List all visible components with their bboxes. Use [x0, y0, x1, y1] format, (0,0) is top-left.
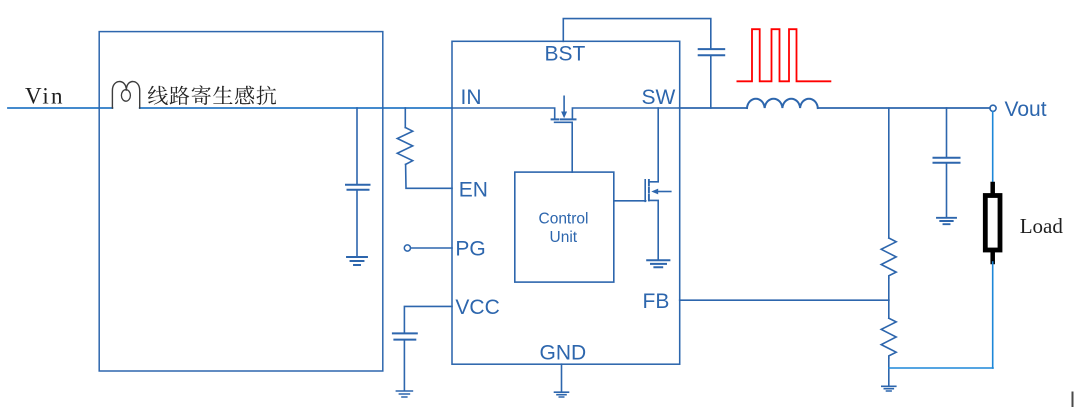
svg-text:PG: PG — [455, 238, 485, 261]
wire Vout to load (bright blue) — [992, 112, 994, 186]
transistor Q1 gate plate — [555, 121, 573, 123]
wire output cap lead — [946, 108, 948, 157]
scrollbar artifact bottom-right — [1072, 393, 1074, 407]
wire GND pin stub — [561, 364, 563, 391]
capacitor C1 input cap lead — [356, 108, 358, 184]
ground G3 under IC — [555, 392, 569, 397]
transistor Q1 channel contacts — [552, 118, 576, 120]
svg-text:SW: SW — [642, 86, 676, 109]
wire VCC pin to cap — [404, 306, 452, 332]
wire output rail — [818, 107, 990, 109]
resistor R_EN zigzag — [397, 128, 412, 165]
寄 — [192, 85, 211, 105]
arrow Q2 body (points left) — [657, 191, 671, 193]
wire Q2 source to ground — [649, 200, 658, 259]
wire C1 to ground — [356, 190, 358, 257]
capacitor C2 VCC bypass plates — [393, 333, 417, 339]
wire R1 to FB node — [888, 278, 890, 300]
wire R2 bottom to load bottom (bright blue) — [889, 367, 993, 369]
wire Vin input rail — [8, 107, 112, 109]
wire SW node to inductor — [680, 107, 747, 109]
capacitor C1 plates — [346, 185, 370, 190]
transistor Q2 channel contacts — [648, 180, 650, 200]
arrow Q1 body (points down) — [563, 96, 565, 112]
resistor R1 (upper divider) — [881, 238, 896, 278]
svg-text:Vin: Vin — [25, 84, 65, 109]
svg-text:FB: FB — [643, 290, 670, 313]
ground G1 — [347, 257, 367, 265]
IC regulator box U1 — [452, 41, 680, 364]
load resistor rectangle — [985, 196, 1000, 251]
inductor L1 — [747, 99, 818, 108]
ground G6 under divider — [882, 386, 896, 391]
load bottom lead (thick black) — [990, 252, 995, 262]
svg-text:EN: EN — [459, 179, 488, 202]
svg-text:IN: IN — [461, 86, 482, 109]
wire R_EN to EN pin — [406, 164, 452, 188]
wire C2 to ground — [403, 340, 405, 391]
路 — [170, 86, 190, 105]
transistor Q1 high-side FET left lead — [452, 108, 555, 119]
inductor parasitic line inductance (coil symbol) — [112, 82, 139, 108]
svg-text:Control: Control — [539, 211, 589, 228]
svg-text:GND: GND — [540, 342, 587, 365]
svg-text:BST: BST — [545, 43, 586, 66]
wire rail under parasitic inductance to IN pin — [140, 107, 452, 109]
ground G4 under Q2 — [647, 260, 669, 267]
wire load bottom (bright blue) — [992, 262, 994, 368]
svg-text:VCC: VCC — [455, 296, 499, 319]
load top lead (thick black) — [990, 184, 995, 194]
ground G2 — [396, 391, 412, 397]
生 — [213, 86, 233, 104]
wire FB node to R2 — [888, 300, 890, 318]
wire Q1 gate to control unit — [571, 122, 573, 172]
wire C3 to ground — [946, 163, 948, 217]
wire R2 bottom to ground node — [888, 358, 890, 386]
wire C_BST to SW rail — [710, 56, 712, 109]
wire BST stub and top loop to bootstrap cap — [563, 19, 711, 49]
wire divider top lead — [888, 108, 890, 238]
capacitor C_BST plates — [699, 49, 725, 55]
wire control unit to Q2 gate — [614, 200, 646, 202]
terminal Vout open circle — [990, 105, 996, 111]
线 — [148, 86, 168, 105]
terminal PG open circle — [404, 245, 410, 251]
input source box (large rectangle) — [99, 32, 383, 371]
svg-text:Load: Load — [1020, 214, 1064, 238]
resistor R_EN lead from rail — [404, 108, 406, 128]
transistor Q2 gate plate — [644, 180, 646, 202]
wire FB pin to divider — [680, 299, 889, 301]
capacitor C3 output cap plates — [934, 158, 960, 163]
resistor R2 (lower divider) — [881, 318, 896, 358]
感 — [235, 86, 254, 105]
ground G5 under C3 — [937, 218, 956, 224]
wire PG pin — [411, 247, 452, 249]
transistor Q2 low-side FET drain lead — [649, 108, 658, 182]
label 线路寄生感抗 (CJK glyph outlines) — [148, 85, 276, 105]
waveform PWM pulses (red) — [737, 29, 830, 81]
svg-text:Vout: Vout — [1005, 98, 1047, 121]
control unit box — [515, 172, 614, 282]
transistor Q1 right lead to SW — [572, 108, 679, 119]
抗 — [257, 86, 277, 105]
svg-text:Unit: Unit — [550, 229, 578, 246]
